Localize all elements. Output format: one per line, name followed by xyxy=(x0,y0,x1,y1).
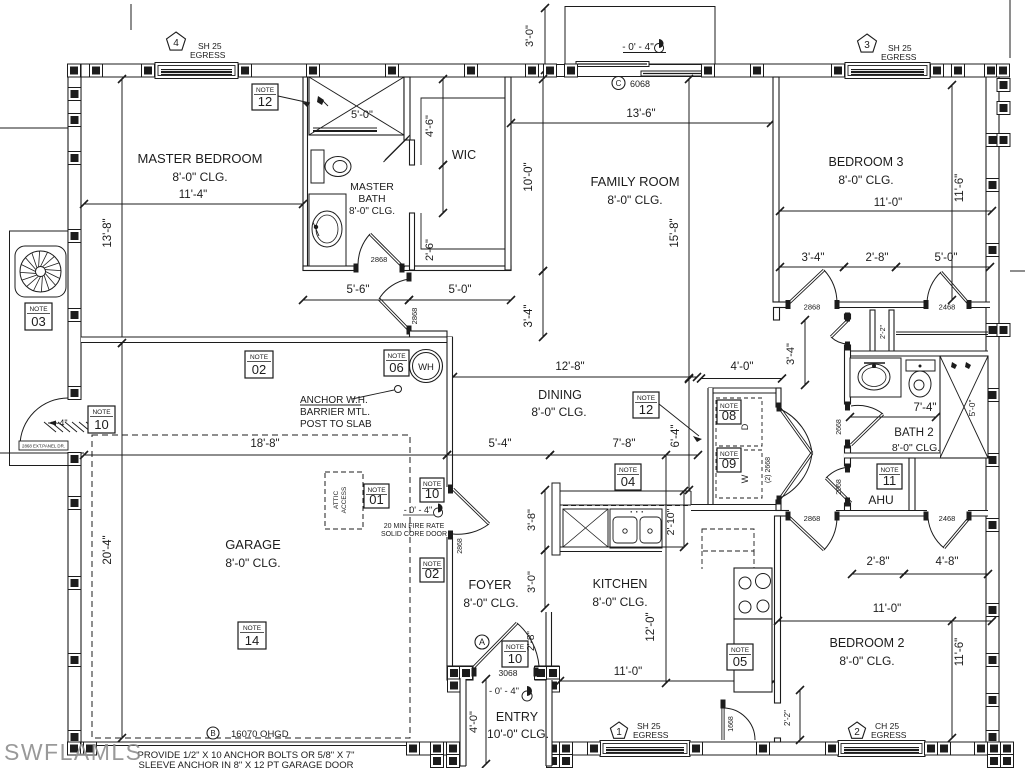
svg-text:8'-0" CLG.: 8'-0" CLG. xyxy=(172,170,227,184)
dimension 5'-6" hall xyxy=(303,299,409,301)
posts top wall xyxy=(68,64,81,77)
svg-text:10'-0": 10'-0" xyxy=(523,162,535,191)
dimension 3'-0" foyer xyxy=(544,550,546,608)
wall exterior top (master bedroom) xyxy=(68,64,155,77)
dimension 10'-0" wic side xyxy=(542,79,544,271)
dimension 2'-8" bedroom2 xyxy=(852,573,904,575)
svg-text:11'-0": 11'-0" xyxy=(874,197,902,209)
jamb posts garage door xyxy=(407,742,420,755)
kitchen pantry cabinet xyxy=(563,509,608,547)
svg-text:· · ·: · · · xyxy=(630,507,644,517)
wall wic west upper xyxy=(410,140,415,165)
note 08 box xyxy=(717,400,741,424)
dimension 2'-10" counter xyxy=(683,491,685,547)
svg-text:3'-0": 3'-0" xyxy=(526,571,538,593)
svg-text:8'-0" CLG.: 8'-0" CLG. xyxy=(463,596,518,610)
svg-text:NOTE: NOTE xyxy=(387,353,406,360)
note 02 box foyer xyxy=(420,558,444,582)
svg-text:11'-4": 11'-4" xyxy=(179,189,207,201)
laundry double doors (2)2668 xyxy=(777,403,782,412)
dimension 7'-4" bath2 xyxy=(850,416,936,418)
laundry closet walls xyxy=(708,388,781,393)
dimension 3'-4" hall side xyxy=(542,271,544,337)
svg-text:3'-0": 3'-0" xyxy=(524,25,536,47)
svg-text:02: 02 xyxy=(425,566,439,581)
dimension 2'-2" nook xyxy=(799,690,801,740)
dimension 2'-8" hall doors xyxy=(844,266,896,268)
dimension 3'-8" foyer xyxy=(544,490,546,550)
svg-text:2868: 2868 xyxy=(410,308,419,325)
wall exterior top (bed3 corner) xyxy=(930,64,1010,77)
svg-text:2'-8": 2'-8" xyxy=(526,631,537,651)
note 02 box garage xyxy=(245,351,273,378)
svg-text:C: C xyxy=(616,79,622,88)
svg-text:4'-8": 4'-8" xyxy=(936,556,959,568)
svg-text:1668: 1668 xyxy=(728,716,735,732)
svg-text:11'-0": 11'-0" xyxy=(873,603,901,615)
dimension 5'-0" hall doors xyxy=(896,266,990,268)
svg-text:MASTER: MASTER xyxy=(350,181,394,193)
note 05 box xyxy=(727,644,753,670)
svg-text:12: 12 xyxy=(258,94,272,109)
dimension 4'-0" hall top xyxy=(701,378,782,380)
garage door clearance dashed xyxy=(92,435,410,738)
shower door swing xyxy=(385,135,410,160)
svg-text:2'-10": 2'-10" xyxy=(665,508,677,535)
svg-text:5'-0": 5'-0" xyxy=(449,284,472,296)
svg-text:NOTE: NOTE xyxy=(243,625,262,632)
condenser enclosure xyxy=(10,231,69,466)
svg-text:4'-0": 4'-0" xyxy=(731,361,754,373)
svg-text:2868 EXT.PANEL DR.: 2868 EXT.PANEL DR. xyxy=(22,444,65,449)
svg-text:ATTIC: ATTIC xyxy=(333,491,340,510)
svg-text:SWFLAMLS: SWFLAMLS xyxy=(4,739,143,765)
wall front door stub left xyxy=(447,666,473,680)
wall bath2 north xyxy=(844,351,988,356)
window 4 SH25 master bedroom xyxy=(155,63,238,79)
door 2668 bath2 xyxy=(845,402,850,411)
svg-text:20'-4": 20'-4" xyxy=(102,535,114,564)
dimension 4'-6" wic xyxy=(442,79,444,165)
svg-text:BATH: BATH xyxy=(358,193,385,205)
svg-text:MASTER BEDROOM: MASTER BEDROOM xyxy=(138,151,263,166)
svg-text:5'-0": 5'-0" xyxy=(967,400,977,417)
posts right wall xyxy=(986,134,999,147)
door 2868 hall xyxy=(407,273,412,282)
stove counter xyxy=(734,568,772,619)
svg-text:FOYER: FOYER xyxy=(468,578,511,592)
svg-text:16070 OHGD: 16070 OHGD xyxy=(231,729,289,740)
wall stub hall to foyer xyxy=(410,331,448,337)
closet shelf lines xyxy=(896,331,988,333)
svg-text:2'-8": 2'-8" xyxy=(867,556,890,568)
dimension 4'-0" porch xyxy=(485,679,487,764)
svg-text:NOTE: NOTE xyxy=(731,647,750,654)
door 2468 bedroom2 xyxy=(924,512,929,521)
note 06 box xyxy=(384,350,409,376)
window marker pentagon 4 xyxy=(167,32,186,50)
wall bedroom2 / nook xyxy=(775,516,781,703)
posts right wall outer column xyxy=(997,79,1010,92)
svg-text:3'-4": 3'-4" xyxy=(523,305,535,328)
svg-text:08: 08 xyxy=(722,408,736,423)
svg-text:NOTE: NOTE xyxy=(256,87,275,94)
svg-text:B: B xyxy=(210,729,215,738)
door 2468 bedroom3 xyxy=(924,300,929,309)
svg-text:8'-0" CLG.: 8'-0" CLG. xyxy=(838,173,893,187)
svg-text:03: 03 xyxy=(31,314,45,329)
svg-text:A: A xyxy=(479,637,485,647)
window 3 SH25 bedroom3 xyxy=(845,63,930,79)
wall master bath south xyxy=(303,266,354,271)
wall bath2 west xyxy=(845,314,851,319)
wall foyer west xyxy=(447,337,453,487)
dimension 3'-4" hall opening xyxy=(804,320,806,385)
svg-text:4'-0": 4'-0" xyxy=(468,711,480,733)
svg-text:14: 14 xyxy=(245,633,259,648)
label B 16070 OHGD xyxy=(207,727,219,739)
wall exterior top (family to bed3) xyxy=(712,64,845,77)
patio outline xyxy=(565,7,715,65)
door 1668 nook xyxy=(721,700,726,709)
dimension 11'-0" bedroom3 xyxy=(780,210,992,212)
property line top-left xyxy=(130,4,132,30)
svg-text:2868: 2868 xyxy=(804,514,821,523)
svg-text:7'-4": 7'-4" xyxy=(914,402,937,414)
svg-text:8'-0" CLG.: 8'-0" CLG. xyxy=(839,654,894,668)
svg-text:1: 1 xyxy=(616,727,622,738)
svg-text:4: 4 xyxy=(173,38,179,49)
fridge dashed xyxy=(702,529,754,551)
svg-text:10'-0" CLG.: 10'-0" CLG. xyxy=(487,727,549,741)
vanity bath2 xyxy=(850,358,901,397)
posts porch right cluster xyxy=(547,742,560,755)
wall exterior bottom (window1 to window2) xyxy=(690,742,838,755)
svg-text:W: W xyxy=(740,474,750,483)
label A foyer xyxy=(475,635,489,649)
property line left xyxy=(0,127,68,129)
svg-text:2'-2": 2'-2" xyxy=(880,325,887,339)
svg-text:WIC: WIC xyxy=(452,148,476,162)
wall exterior left lower xyxy=(68,452,81,755)
svg-text:2068: 2068 xyxy=(836,479,843,495)
water heater WH xyxy=(410,350,443,383)
svg-text:FAMILY ROOM: FAMILY ROOM xyxy=(590,174,679,189)
svg-text:7'-8": 7'-8" xyxy=(613,438,636,450)
svg-text:18'-8": 18'-8" xyxy=(250,438,279,450)
dimension 20'-4" garage xyxy=(121,343,123,738)
dimension 4'-8" bedroom2 xyxy=(904,573,988,575)
dimension 11'-0" bedroom2 xyxy=(778,620,992,622)
dimension 12'-0" kitchen xyxy=(665,455,667,683)
wall foyer east xyxy=(546,612,552,666)
svg-text:13'-6": 13'-6" xyxy=(626,108,655,120)
svg-text:2868: 2868 xyxy=(457,538,464,554)
svg-text:EGRESS: EGRESS xyxy=(881,52,917,62)
svg-text:2468: 2468 xyxy=(939,514,956,523)
stoop edge xyxy=(0,452,84,454)
window marker pentagon 2 xyxy=(848,722,865,738)
svg-text:2868: 2868 xyxy=(804,303,821,312)
svg-text:EGRESS: EGRESS xyxy=(871,730,907,740)
shower head symbol xyxy=(317,96,324,105)
toilet master bath xyxy=(311,150,324,183)
svg-text:5'-6": 5'-6" xyxy=(347,284,370,296)
svg-text:6'-4": 6'-4" xyxy=(670,425,682,448)
svg-text:5'-4": 5'-4" xyxy=(489,438,512,450)
svg-text:3068: 3068 xyxy=(499,668,518,678)
wall foyer west lower xyxy=(447,537,453,666)
svg-text:BEDROOM 3: BEDROOM 3 xyxy=(828,155,903,169)
jamb posts window3 xyxy=(832,64,845,77)
svg-text:11'-0": 11'-0" xyxy=(614,666,642,678)
posts bottom-right corner xyxy=(975,742,988,755)
shower master bath xyxy=(309,77,404,135)
svg-text:2468: 2468 xyxy=(939,303,956,312)
svg-text:AHU: AHU xyxy=(868,493,893,507)
wall exterior bottom (garage jamb to porch) xyxy=(408,742,466,755)
dimension 11'-4" master bedroom xyxy=(84,203,303,205)
garage door opening 16070 OHGD xyxy=(95,741,408,743)
svg-text:KITCHEN: KITCHEN xyxy=(593,577,648,591)
posts front door right xyxy=(535,667,548,680)
svg-text:01: 01 xyxy=(369,492,383,507)
dimension 18'-8" garage xyxy=(84,454,447,456)
note 11 box xyxy=(877,464,902,489)
wall wic west lower xyxy=(410,213,415,270)
wall master bedroom / master bath xyxy=(303,77,308,270)
dimension 5'-0" hall xyxy=(409,299,511,301)
window 2 CH25 bedroom2 xyxy=(838,741,925,757)
svg-text:8'-0" CLG.: 8'-0" CLG. xyxy=(592,595,647,609)
dimension 6'-4" xyxy=(688,378,690,490)
door 2868 ext panel left xyxy=(20,446,68,448)
svg-text:3'-8": 3'-8" xyxy=(526,509,538,531)
svg-text:06: 06 xyxy=(389,360,403,375)
wall exterior bottom (window2 to corner) xyxy=(925,742,1010,755)
dimension 7'-8" kitchen xyxy=(550,454,698,456)
svg-text:2'-6": 2'-6" xyxy=(424,239,436,261)
svg-text:-4": -4" xyxy=(56,418,67,428)
svg-text:12'-8": 12'-8" xyxy=(555,361,584,373)
kitchen counter front xyxy=(560,546,684,548)
svg-text:09: 09 xyxy=(722,456,736,471)
stove counter lower xyxy=(734,619,772,692)
svg-text:11'-6": 11'-6" xyxy=(954,638,966,666)
attic access xyxy=(325,472,363,529)
svg-text:BATH 2: BATH 2 xyxy=(894,427,933,439)
sliding glass door C 6068 xyxy=(545,65,715,77)
dimension 11'-6" bedroom3 xyxy=(951,85,953,300)
svg-text:4'-6": 4'-6" xyxy=(424,115,436,137)
svg-text:BEDROOM 2: BEDROOM 2 xyxy=(829,636,904,650)
svg-text:3'-4": 3'-4" xyxy=(785,343,797,365)
svg-text:SLEEVE ANCHOR IN 8" X 12 PT GA: SLEEVE ANCHOR IN 8" X 12 PT GARAGE DOOR xyxy=(139,760,354,768)
dimension 5'-4" foyer xyxy=(447,454,550,456)
svg-text:8'-0" CLG.: 8'-0" CLG. xyxy=(225,556,280,570)
svg-text:2668: 2668 xyxy=(836,419,843,435)
wall bath2 south xyxy=(844,453,940,458)
svg-text:SOLID CORE DOOR: SOLID CORE DOOR xyxy=(381,531,447,538)
wall exterior bottom (porch to window1) xyxy=(546,742,600,755)
note 04 box kitchen xyxy=(615,464,641,490)
door 2868 garage fire xyxy=(448,485,453,494)
wall exterior right xyxy=(986,64,999,755)
svg-text:- 0' - 4": - 0' - 4" xyxy=(489,686,519,697)
note 09 box xyxy=(717,448,741,472)
door 2068 ahu xyxy=(845,464,850,473)
svg-text:NOTE: NOTE xyxy=(250,354,269,361)
dimension 3'-4" hall doors xyxy=(780,266,844,268)
svg-text:13'-8": 13'-8" xyxy=(102,218,114,247)
porch wall left xyxy=(460,679,466,766)
property line right xyxy=(1010,270,1025,272)
dimension 13'-6" family room xyxy=(511,122,771,124)
svg-text:05: 05 xyxy=(733,654,747,669)
svg-text:ANCHOR W.H.: ANCHOR W.H. xyxy=(300,395,368,406)
door 2868 bedroom3 xyxy=(786,300,791,309)
svg-text:2'-8": 2'-8" xyxy=(866,252,889,264)
wall bedroom2 north xyxy=(776,511,789,517)
laundry dryer dashed xyxy=(716,398,762,446)
dimension 15'-8" family room xyxy=(688,79,690,379)
note 12 box master bath xyxy=(252,84,278,110)
svg-text:(2) 2668: (2) 2668 xyxy=(765,457,772,483)
posts porch left cluster xyxy=(431,742,444,755)
svg-text:12'-0": 12'-0" xyxy=(645,612,657,641)
note 03 box xyxy=(25,303,52,330)
svg-text:2868: 2868 xyxy=(371,255,388,264)
svg-text:2'-2": 2'-2" xyxy=(783,710,792,726)
note 14 box xyxy=(238,622,266,649)
note 10 box left door xyxy=(88,406,115,433)
svg-text:- 0' - 4": - 0' - 4" xyxy=(404,505,432,515)
wall garage north xyxy=(81,337,453,343)
svg-text:20 MIN FIRE RATE: 20 MIN FIRE RATE xyxy=(384,523,445,530)
shower head bath2 xyxy=(951,362,957,369)
svg-text:GARAGE: GARAGE xyxy=(225,537,281,552)
svg-text:WH: WH xyxy=(418,362,434,373)
svg-text:NOTE: NOTE xyxy=(506,644,525,651)
wall bedroom3 west xyxy=(773,77,779,302)
laundry washer dashed xyxy=(716,450,762,498)
jamb posts window4 xyxy=(142,64,155,77)
dimension 11'-0" kitchen xyxy=(560,680,774,682)
wall wic east / family room xyxy=(505,77,511,270)
shower bath2 xyxy=(940,356,988,458)
door 2868 master bath xyxy=(354,264,359,273)
wall front door stub right xyxy=(535,666,559,680)
posts left wall xyxy=(68,88,81,101)
svg-text:3: 3 xyxy=(864,40,870,51)
svg-text:10: 10 xyxy=(94,417,108,432)
svg-text:6068: 6068 xyxy=(630,79,650,89)
label C 6068 xyxy=(612,77,625,90)
wic shelving outline xyxy=(421,98,505,249)
svg-text:02: 02 xyxy=(252,362,266,377)
svg-text:04: 04 xyxy=(621,474,635,489)
condenser fan xyxy=(15,246,66,297)
wall hall west (family side) xyxy=(774,308,780,321)
svg-text:5'-0": 5'-0" xyxy=(351,109,373,121)
jamb posts window1 xyxy=(588,742,601,755)
wall shower right / wic xyxy=(404,77,410,140)
kitchen counter band xyxy=(560,490,691,492)
dimension 11'-6" bedroom2 xyxy=(951,621,953,738)
dimension 12'-8" dining xyxy=(453,376,697,378)
dimension 2'-6" wic opening xyxy=(442,165,444,213)
svg-text:NOTE: NOTE xyxy=(637,395,656,402)
svg-text:8'-0" CLG.: 8'-0" CLG. xyxy=(531,405,586,419)
svg-text:11: 11 xyxy=(883,473,897,488)
kitchen sink double xyxy=(610,509,662,548)
svg-text:NOTE: NOTE xyxy=(92,409,111,416)
svg-text:ENTRY: ENTRY xyxy=(496,710,539,724)
post top-right corner outer xyxy=(997,64,1010,77)
svg-text:NOTE: NOTE xyxy=(619,467,638,474)
svg-text:8'-0" CLG.: 8'-0" CLG. xyxy=(349,206,395,217)
svg-text:D: D xyxy=(740,423,750,430)
svg-text:11'-6": 11'-6" xyxy=(954,174,966,202)
dimension 3'-0" patio xyxy=(544,8,546,70)
porch wall right xyxy=(546,680,552,766)
svg-text:3'-4": 3'-4" xyxy=(802,252,825,264)
svg-text:NOTE: NOTE xyxy=(29,306,48,313)
wall ahu east xyxy=(909,458,915,512)
wall exterior left upper xyxy=(68,64,81,398)
vanity master bath xyxy=(309,194,346,266)
svg-text:ACCESS: ACCESS xyxy=(341,486,348,513)
note 01 box xyxy=(364,484,389,508)
note 10 box fire door xyxy=(420,478,444,502)
wall exterior top (mb to bath) xyxy=(238,64,545,77)
kitchen counter end cap xyxy=(552,483,560,555)
posts front door left xyxy=(448,667,461,680)
porch bottom caps xyxy=(460,765,466,767)
svg-text:8'-0" CLG.: 8'-0" CLG. xyxy=(892,442,940,454)
svg-text:15'-8": 15'-8" xyxy=(669,218,681,247)
door 2868 bedroom2 xyxy=(786,512,791,521)
window marker pentagon 3 xyxy=(858,34,877,52)
svg-text:12: 12 xyxy=(639,402,653,417)
window 1 SH25 kitchen xyxy=(600,741,690,757)
wall bedroom3 south xyxy=(773,302,789,308)
svg-text:DINING: DINING xyxy=(538,388,582,402)
jamb posts slider xyxy=(544,64,557,77)
svg-text:2: 2 xyxy=(854,727,860,738)
svg-text:- 0' - 4": - 0' - 4" xyxy=(622,42,654,53)
window marker pentagon 1 xyxy=(610,722,627,738)
svg-text:10: 10 xyxy=(425,486,439,501)
svg-text:BARRIER MTL.: BARRIER MTL. xyxy=(300,407,370,418)
note 12 box dining xyxy=(633,392,659,418)
svg-text:EGRESS: EGRESS xyxy=(190,50,226,60)
linen closet 2'-2" xyxy=(870,310,875,352)
wall exterior bottom (garage corner) xyxy=(68,742,95,755)
door 3068 entry xyxy=(472,668,477,677)
property line top-right xyxy=(1009,0,1011,58)
svg-text:10: 10 xyxy=(508,651,522,666)
note 10 box foyer xyxy=(502,641,528,667)
toilet bath2 xyxy=(906,360,935,371)
jamb posts window2 xyxy=(826,742,839,755)
svg-text:8'-0" CLG.: 8'-0" CLG. xyxy=(607,193,662,207)
svg-text:EGRESS: EGRESS xyxy=(633,730,669,740)
svg-text:POST TO SLAB: POST TO SLAB xyxy=(300,419,372,430)
dimension 13'-8" left xyxy=(121,79,123,343)
svg-text:5'-0": 5'-0" xyxy=(935,252,958,264)
posts bottom wall xyxy=(68,742,81,755)
